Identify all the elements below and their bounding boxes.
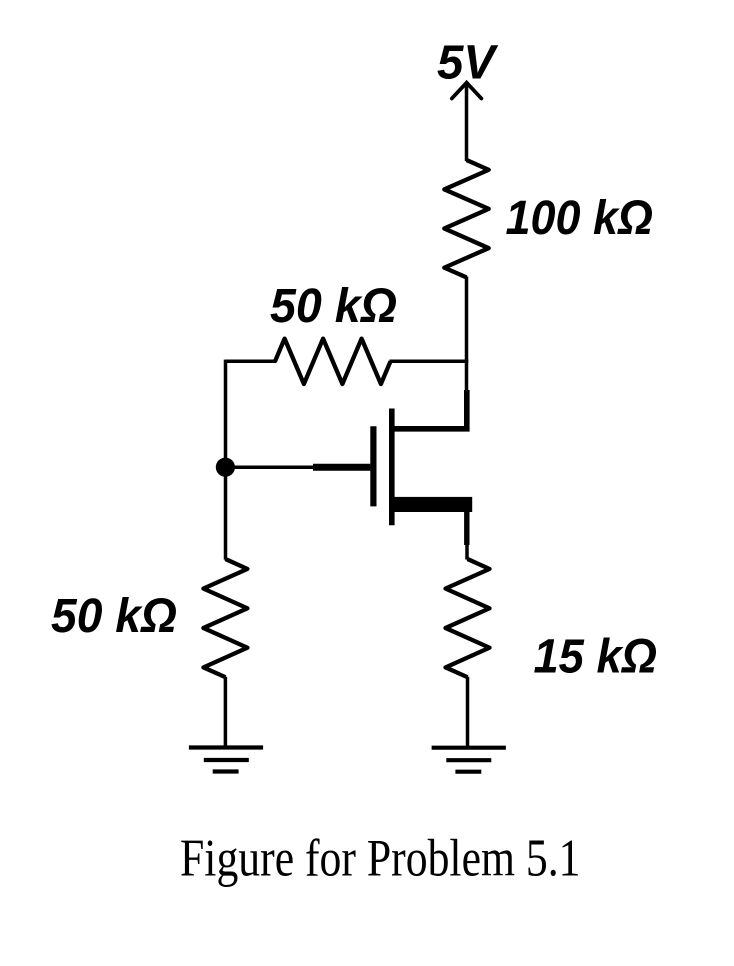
wire gate horizontal <box>226 465 317 469</box>
R3 value label 50 kOhm <box>51 590 177 643</box>
junction node gate <box>216 458 235 477</box>
svg-text:15 kΩ: 15 kΩ <box>534 631 658 684</box>
transistor M1 gate bar <box>370 426 376 506</box>
wire source to R4 <box>465 543 469 560</box>
transistor M1 source bar thick <box>389 497 472 512</box>
transistor M1 source lead <box>464 512 469 545</box>
ground left <box>189 748 263 772</box>
svg-text:50 kΩ: 50 kΩ <box>51 590 177 643</box>
wire R2 left lead <box>226 360 277 364</box>
svg-text:100 kΩ: 100 kΩ <box>506 192 654 245</box>
wire left vertical gate branch <box>224 360 228 560</box>
R4 value label 15 kOhm <box>534 631 658 684</box>
R1 value label 100 kOhm <box>506 192 654 245</box>
transistor M1 channel bar <box>389 409 395 526</box>
resistor R2 50 kOhm feedback <box>275 339 391 384</box>
svg-text:5V: 5V <box>437 36 499 89</box>
wire R2 right lead to drain <box>390 360 469 364</box>
ground right <box>432 748 506 772</box>
wire R4 to ground <box>466 677 470 749</box>
resistor R4 15 kOhm <box>446 559 490 677</box>
net VDD label 5V <box>437 36 499 89</box>
svg-text:Figure for Problem 5.1: Figure for Problem 5.1 <box>180 829 581 887</box>
resistor R3 50 kOhm bottom left <box>203 559 247 677</box>
caption Figure for Problem 5.1 <box>180 829 581 887</box>
resistor R1 100 kOhm <box>444 160 488 277</box>
transistor M1 drain lead <box>392 390 467 429</box>
svg-text:50 kΩ: 50 kΩ <box>270 280 397 333</box>
wire R3 to ground <box>224 677 228 748</box>
R2 value label 50 kOhm <box>270 280 397 333</box>
wire drain vertical <box>465 277 469 393</box>
supply arrow <box>452 83 482 161</box>
transistor M1 gate lead <box>313 464 370 471</box>
